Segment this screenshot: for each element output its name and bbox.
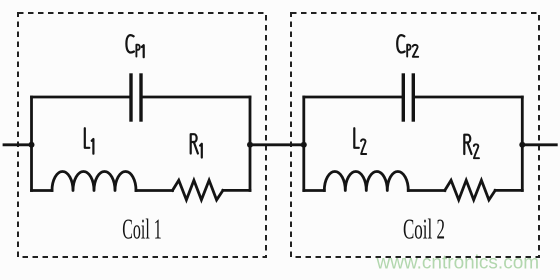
svg-text:Coil 2: Coil 2 [403,214,445,246]
svg-text:www.cntronics.com: www.cntronics.com [376,253,540,274]
svg-text:Coil 1: Coil 1 [122,214,161,246]
